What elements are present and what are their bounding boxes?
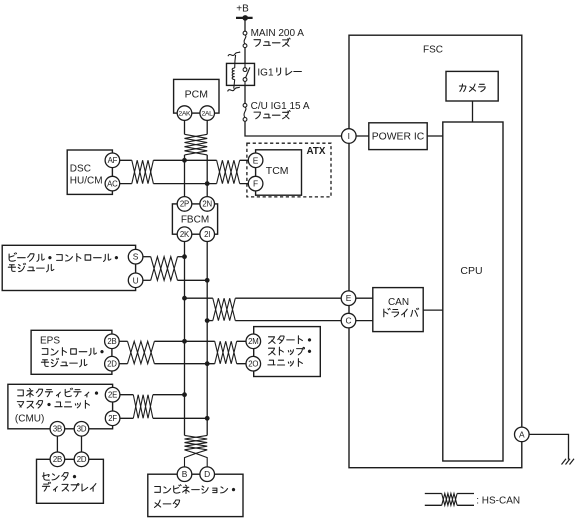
pin 2P (FBCM CAN-H in) [177, 197, 192, 212]
label legend : HS-CAN [476, 495, 520, 506]
wire CMU 2E to bus CAN-H [113, 394, 185, 396]
pin D (meter CAN-L) [200, 467, 215, 482]
wire relay to fuse F2 [244, 85, 246, 103]
wire HS-CAN bus CAN-H vertical (lower) [184, 234, 186, 435]
svg-text:PCM: PCM [185, 89, 208, 101]
pin 2B (display H) [50, 452, 65, 467]
wire CMU 3B to display 2B [56, 429, 58, 460]
svg-text:2O: 2O [248, 359, 258, 368]
ground G1 (body ground) [562, 459, 575, 465]
svg-text:AF: AF [108, 156, 118, 165]
module CAN driver CANドライバ [373, 288, 423, 332]
pin S (VCM CAN-H) [128, 249, 143, 264]
wire fuse F2 to FSC pin I [245, 121, 342, 136]
twisted pair VCM [151, 257, 178, 281]
fuse F2 C/U IG1 15 A [243, 103, 247, 121]
twisted pair EPS (left section) [128, 341, 155, 363]
svg-text:2AK: 2AK [178, 111, 191, 118]
svg-text:TCM: TCM [266, 165, 289, 177]
svg-text:(CMU): (CMU) [15, 414, 44, 425]
junction bus CAN-H / CMU row [182, 392, 187, 397]
svg-text:3B: 3B [53, 425, 62, 434]
svg-text:POWER IC: POWER IC [372, 132, 425, 143]
junction bus CAN-H / FSC row [182, 296, 187, 301]
pin AC (DSC CAN-L) [105, 176, 120, 191]
svg-text:E: E [346, 293, 352, 303]
node +B battery [236, 4, 253, 21]
pin 3D (CMU display out L) [74, 422, 89, 437]
module POWER IC [369, 123, 427, 150]
pin A (FSC ground) [515, 427, 530, 442]
label F1 value MAIN 200 A fuse [251, 28, 305, 46]
svg-text:2AL: 2AL [201, 111, 213, 118]
pin 2K (FBCM CAN-H out) [177, 227, 192, 242]
svg-text:E: E [253, 155, 259, 165]
pin 2N (FBCM CAN-L in) [200, 197, 215, 212]
pin 3B (CMU display out H) [50, 422, 65, 437]
pin 2E (CMU CAN-H) [105, 387, 120, 402]
wire pin E to CAN driver [356, 297, 373, 299]
wire CMU 2F to bus CAN-L [113, 417, 208, 419]
wire bus twisted pair drop to meter [185, 435, 208, 467]
wire HS-CAN bus CAN-L vertical (lower) [206, 234, 208, 435]
module FSC enclosure [349, 35, 522, 468]
twisted pair bus-FSC [213, 298, 236, 320]
svg-text:CAN: CAN [388, 297, 409, 308]
junction bus CAN-L / CMU row [205, 416, 210, 421]
svg-text:2D: 2D [77, 455, 87, 464]
label relay IG1リレー [257, 67, 301, 78]
twisted pair CMU [133, 395, 153, 419]
module CPU [443, 122, 503, 461]
svg-text:B: B [182, 469, 188, 479]
pin 2AK (PCM CAN-H) [177, 106, 192, 121]
wire EPS 2D to SSU 2O (CAN-L row) [112, 363, 253, 365]
ATX dashed enclosure [247, 143, 331, 197]
wire VCM S to bus CAN-H [136, 256, 185, 258]
module start stop unit スタート・ストップ・ユニット [254, 327, 321, 377]
junction bus CAN-L / FSC row [205, 318, 210, 323]
pin 2D (EPS CAN-L) [105, 356, 120, 371]
svg-text:C: C [345, 316, 351, 326]
pin AF (DSC CAN-H) [105, 153, 120, 168]
svg-text:CPU: CPU [460, 265, 482, 277]
svg-text:2M: 2M [248, 337, 258, 346]
svg-text:FBCM: FBCM [181, 214, 209, 225]
wire HS-CAN bus CAN-H vertical (upper) [184, 155, 186, 204]
wire POWER IC to CPU [427, 135, 443, 137]
svg-text:U: U [133, 275, 139, 285]
svg-text:2F: 2F [108, 414, 117, 423]
svg-text:2I: 2I [204, 230, 210, 239]
junction bus CAN-H / EPS row [182, 339, 187, 344]
module camera カメラ [446, 71, 498, 101]
twisted pair DSC-TCM (right section) [217, 160, 240, 183]
junction bus CAN-H / S row [182, 254, 187, 259]
wire bus CAN-H to FSC pin E [185, 297, 342, 299]
svg-text:IG1: IG1 [257, 67, 274, 78]
svg-text:+B: +B [236, 4, 249, 15]
wire +B to fuse F1 [244, 18, 246, 31]
module center display センタ・ディスプレイ [37, 459, 104, 503]
pin F (TCM CAN-L) [248, 176, 263, 191]
wire bus CAN-L to FSC pin C [207, 320, 341, 322]
pin 2AL (PCM CAN-L) [200, 106, 215, 121]
wire pin C to CAN driver [356, 320, 373, 322]
svg-text:S: S [133, 252, 139, 262]
pin 2I (FBCM CAN-L out) [200, 227, 215, 242]
relay K1 IG1 [227, 52, 255, 92]
svg-text:EPS: EPS [40, 336, 60, 347]
pin 2F (CMU CAN-L) [105, 411, 120, 426]
svg-text:ATX: ATX [307, 146, 326, 157]
svg-text:F: F [253, 179, 258, 189]
svg-text:3D: 3D [77, 425, 87, 434]
svg-text:: HS-CAN: : HS-CAN [476, 495, 520, 506]
pin 2M (SSU CAN-H) [246, 334, 261, 349]
module PCM [174, 79, 219, 113]
wire PCM twisted pair drop to bus [185, 113, 208, 155]
module vehicle control module ビークル・コントロール・モジュール [2, 245, 135, 290]
wire EPS 2B to SSU 2M (CAN-H row) [112, 340, 253, 342]
svg-text:I: I [348, 131, 350, 141]
pin C (FSC CAN-L) [341, 313, 356, 328]
legend HS-CAN twisted pair symbol [425, 494, 474, 506]
pin B (meter CAN-H) [177, 467, 192, 482]
module combination meter コンビネーション・メータ [148, 474, 243, 516]
module FBCM [172, 204, 217, 234]
wire FSC pin A to ground [529, 434, 568, 459]
svg-text:MAIN 200 A: MAIN 200 A [251, 28, 305, 39]
pin I (FSC power input) [342, 129, 357, 144]
pin E (TCM CAN-H) [248, 153, 263, 168]
svg-text:HU/CM: HU/CM [70, 175, 103, 186]
module DSC HU/CM [67, 150, 112, 194]
svg-text:2B: 2B [107, 337, 116, 346]
svg-text:D: D [204, 469, 210, 479]
wire DSC AC to TCM F (CAN-L row) [112, 183, 255, 185]
wire CAN driver to CPU [423, 309, 443, 311]
wire fuse F1 to relay [244, 48, 246, 64]
fuse F1 MAIN 200 A [243, 31, 247, 47]
svg-text:DSC: DSC [70, 163, 91, 174]
wire pin I to POWER IC [356, 135, 369, 137]
wire CMU 3D to display 2D [81, 429, 83, 460]
module TCM [256, 150, 302, 195]
svg-text:2P: 2P [180, 200, 189, 209]
twisted pair SSU (right section) [215, 341, 237, 363]
junction bus CAN-L / EPS row [205, 361, 210, 366]
pin 2O (SSU CAN-L) [246, 356, 261, 371]
svg-text:FSC: FSC [423, 45, 443, 56]
pin U (VCM CAN-L) [128, 273, 143, 288]
svg-text:2K: 2K [180, 230, 190, 239]
module EPS control module EPSコントロール・モジュール [31, 330, 112, 374]
svg-text:AC: AC [107, 179, 118, 188]
pin 2D (display L) [74, 452, 89, 467]
wire HS-CAN bus CAN-L vertical (upper) [206, 155, 208, 204]
label F2 value C/U IG1 15 A fuse [251, 101, 310, 119]
pin E (FSC CAN-H) [341, 291, 356, 306]
svg-text:2N: 2N [202, 200, 212, 209]
svg-text:C/U IG1 15 A: C/U IG1 15 A [251, 101, 310, 112]
junction bus CAN-L / AC row [205, 181, 210, 186]
wire VCM U to bus CAN-L [136, 279, 208, 281]
wire camera to CPU [472, 101, 474, 122]
svg-text:2B: 2B [53, 455, 62, 464]
svg-text:A: A [519, 429, 525, 439]
junction bus CAN-L / U row [205, 278, 210, 283]
svg-text:2E: 2E [108, 390, 117, 399]
svg-text:2D: 2D [107, 359, 117, 368]
junction bus CAN-H / AF row [182, 158, 187, 163]
module connectivity master unit CMU [8, 384, 113, 429]
pin 2B (EPS CAN-H) [105, 334, 120, 349]
wire DSC AF to TCM E (CAN-H row) [112, 160, 255, 183]
